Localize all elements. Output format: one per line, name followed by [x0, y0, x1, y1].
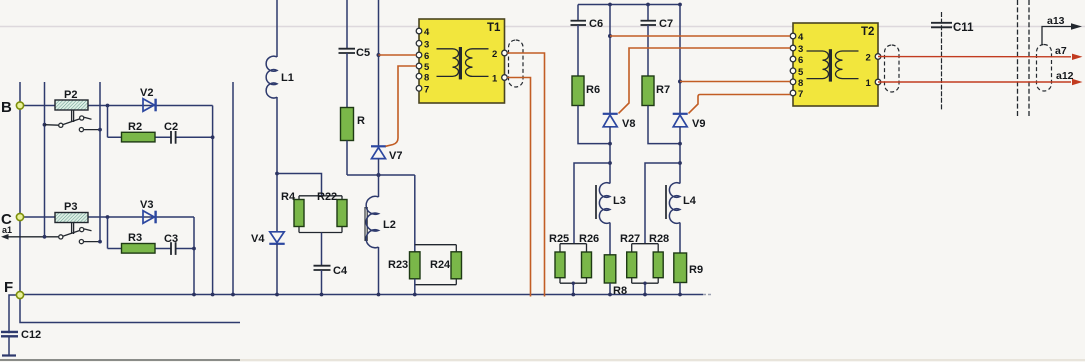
capacitor C4: [314, 265, 348, 277]
capacitor C2: [164, 121, 178, 144]
wire: vertical stub x=44.5: [44, 82, 46, 237]
wire R2 row drop: [107, 106, 109, 138]
wire: top rail y=4.5: [578, 4, 680, 6]
svg-text:R25: R25: [549, 233, 569, 245]
wire R2 row right segment: [176, 136, 213, 138]
wire: x=610 below V8: [609, 127, 611, 184]
wire: x=578 mid: [577, 25, 579, 76]
resistor R2: [122, 121, 156, 142]
wire: B row corner down to bottom bus: [212, 106, 214, 295]
wire: vertical x=680: [679, 5, 681, 114]
resistor R25: [549, 233, 569, 278]
junction dots on bottom bus (left): [192, 293, 196, 297]
svg-text:P3: P3: [64, 201, 77, 213]
scan artifact bottom edge line: [0, 359, 240, 361]
svg-text:T1: T1: [487, 22, 501, 34]
inductor L3 core: [595, 185, 597, 219]
svg-text:V9: V9: [692, 118, 705, 130]
svg-text:R7: R7: [656, 84, 670, 96]
resistor R23: [388, 252, 420, 279]
transformer T1 box: [419, 19, 505, 103]
svg-text:V8: V8: [622, 118, 635, 130]
transformer T1 windings: [437, 47, 489, 79]
inductor L4: [669, 183, 696, 224]
node C: [1, 211, 24, 228]
wire: x=610 below L3: [609, 223, 611, 255]
wire: R25 pair to bus: [572, 283, 574, 294]
wire: vertical stub x=100: [99, 82, 101, 242]
svg-text:C7: C7: [659, 18, 673, 30]
inductor L2 core: [365, 207, 367, 241]
T2 pin 1: [866, 78, 881, 89]
svg-text:3: 3: [424, 40, 429, 51]
T1 pin 5: [416, 62, 430, 73]
inductor L1: [266, 56, 294, 98]
diode V3: [140, 199, 156, 223]
diode V2: [140, 87, 156, 111]
R25/R26 rails: [560, 244, 587, 284]
wire: x=680 below V9: [679, 127, 681, 184]
node B: [1, 99, 24, 116]
svg-text:C5: C5: [356, 47, 370, 59]
capacitor C7: [641, 18, 674, 30]
svg-text:R8: R8: [613, 285, 627, 297]
svg-text:R2: R2: [128, 121, 142, 133]
svg-text:a12: a12: [1056, 70, 1074, 82]
wire: R27 branch tap: [645, 163, 680, 244]
T1 pin 8: [416, 72, 429, 83]
scan artifact light horizontal line: [0, 26, 1085, 28]
svg-text:6: 6: [798, 55, 803, 66]
switch S1 of P2: [45, 116, 102, 132]
junction x45 on switch1 wire: [43, 123, 47, 127]
orange wire V9 tap to T2 pin8: [680, 81, 790, 83]
svg-text:1: 1: [492, 74, 498, 85]
orange wire V9 cathode to T2 pin7: [689, 95, 791, 114]
inductor L2: [366, 196, 396, 247]
resistor R3: [122, 232, 156, 253]
resistor R28: [649, 233, 669, 278]
svg-text:R3: R3: [128, 232, 142, 244]
svg-text:C11: C11: [953, 22, 974, 34]
R23/R24 rails: [415, 245, 457, 285]
R4/R22 parallel network rails: [299, 196, 342, 233]
T1 output dashed stadium: [509, 40, 524, 87]
svg-text:C12: C12: [21, 329, 41, 341]
wire: C4 drop: [321, 233, 323, 266]
junction V7 line y175: [377, 173, 381, 177]
T2 pin 7: [790, 89, 803, 100]
svg-text:4: 4: [424, 27, 430, 38]
wire: R27 pair to bus: [644, 283, 646, 294]
svg-text:a13: a13: [1047, 15, 1065, 27]
T2 pin 2: [866, 53, 881, 64]
wire: vertical stub x=233: [232, 82, 234, 295]
junction top rail x648: [646, 3, 650, 7]
junction C row to R3 row: [106, 215, 110, 219]
capacitor C12: [1, 329, 41, 356]
svg-text:6: 6: [424, 51, 429, 62]
wire: F lower branch horizontal: [20, 295, 240, 323]
wire: R23 to bus: [414, 279, 416, 295]
diode V9: [673, 114, 706, 130]
svg-text:2: 2: [866, 53, 871, 64]
capacitor C11 line: [941, 12, 943, 110]
resistor R4: [281, 191, 304, 227]
T1 pin 2: [492, 49, 507, 60]
svg-text:R9: R9: [689, 264, 703, 276]
svg-text:P2: P2: [64, 89, 77, 101]
T1 pin 1: [492, 74, 507, 85]
svg-text:T2: T2: [861, 26, 874, 38]
transformer T2 box: [793, 23, 878, 106]
node a1 arrow: [1, 225, 60, 240]
orange wire T1 pin1 down: [507, 78, 530, 297]
orange wire V8 tap to T2 pin4: [610, 35, 790, 37]
T2 pin 6: [790, 55, 803, 66]
relay P3 actuator link: [72, 223, 74, 234]
wire R3 row left segment: [108, 248, 171, 250]
capacitor C6: [571, 18, 604, 30]
inductor L4 core: [665, 185, 667, 219]
wire: R9 to bus: [679, 283, 681, 295]
wire R3 row drop: [107, 217, 109, 249]
junction top rail x680: [678, 3, 682, 7]
svg-text:R22: R22: [317, 191, 337, 203]
svg-text:7: 7: [798, 89, 803, 100]
svg-text:4: 4: [798, 32, 804, 43]
orange wire V8 cathode to T2 pin3: [619, 48, 791, 113]
wire: vertical x=347 top: [346, 0, 348, 48]
junction R3 row right: [192, 247, 196, 251]
svg-text:V4: V4: [251, 233, 265, 245]
svg-text:V2: V2: [140, 87, 153, 99]
wire: vertical x=378.5 top: [378, 0, 380, 146]
svg-text:R28: R28: [649, 233, 669, 245]
svg-text:R24: R24: [430, 259, 451, 271]
T2 pin 8: [790, 78, 803, 89]
svg-text:R: R: [357, 115, 365, 127]
junction x277 y173.5: [275, 172, 279, 176]
svg-text:8: 8: [798, 78, 803, 89]
resistor R7: [642, 76, 670, 106]
svg-text:R6: R6: [586, 84, 600, 96]
T2 output dashed stadium: [885, 45, 900, 92]
orange wire T1 pin5 to V7: [386, 66, 417, 146]
svg-text:V3: V3: [140, 199, 153, 211]
wire: horizontal to R4/R22: [277, 174, 322, 196]
red wire a7: [878, 45, 1083, 60]
wire: vertical x=277 mid: [276, 97, 278, 232]
relay P2: [55, 89, 88, 110]
relay P3: [55, 201, 88, 223]
resistor R24: [430, 252, 462, 279]
dashed vertical line 2: [1028, 0, 1030, 116]
red wire a12: [878, 70, 1083, 85]
diode V7: [371, 146, 402, 162]
wire a13: [1042, 15, 1082, 45]
wire: x=648 C7 branch: [647, 5, 649, 21]
wire: x=648 mid: [647, 25, 649, 76]
resistor R8: [604, 255, 627, 297]
wire: bottom bus dashed remnant: [703, 294, 712, 296]
svg-text:C4: C4: [333, 265, 348, 277]
resistor R27: [620, 233, 640, 278]
resistor R26: [579, 233, 599, 278]
svg-text:R23: R23: [388, 259, 408, 271]
svg-text:a1: a1: [2, 225, 12, 235]
wire: C row horizontal: [20, 216, 194, 218]
switch S2 of P3: [59, 228, 102, 244]
svg-text:L2: L2: [383, 219, 396, 231]
T2 pin 5: [790, 67, 804, 78]
junction x45 on a1 wire: [43, 235, 47, 239]
T2 pin 4: [790, 32, 804, 43]
svg-text:a7: a7: [1055, 45, 1067, 57]
svg-text:L3: L3: [613, 195, 626, 207]
wire: vertical x=378.5 bottom: [378, 247, 380, 295]
wire R3 row right segment: [176, 248, 194, 250]
wire: F to C12 branch: [9, 295, 20, 355]
T1 pin 6: [416, 51, 429, 62]
wire: B-C-F vertical bus x=20: [19, 82, 21, 295]
svg-text:C6: C6: [589, 18, 603, 30]
wire: R8 to bus: [609, 283, 611, 295]
svg-text:7: 7: [424, 85, 429, 96]
svg-text:8: 8: [424, 72, 429, 83]
svg-text:3: 3: [798, 44, 803, 55]
resistor R: [341, 108, 366, 141]
svg-text:2: 2: [492, 49, 497, 60]
junction B row to R2 row: [106, 104, 110, 108]
relay P2 actuator link: [72, 111, 74, 123]
dashed vertical line 1: [1017, 0, 1019, 116]
resistor R22: [317, 191, 347, 227]
junction orange tap y55: [377, 53, 381, 57]
wire: B row horizontal: [20, 105, 213, 107]
wire: horizontal y=175: [347, 174, 415, 176]
svg-text:R27: R27: [620, 233, 640, 245]
diode V4: [251, 232, 285, 245]
capacitor C11: [931, 22, 974, 34]
svg-text:R26: R26: [579, 233, 599, 245]
orange wire T1 pin6: [379, 54, 417, 56]
junction top rail x610: [608, 3, 612, 7]
svg-text:B: B: [1, 99, 12, 116]
wire: vertical x=277 bottom: [276, 244, 278, 295]
wire: vertical x=277 top: [276, 0, 278, 57]
wire: C4 to bus: [321, 270, 323, 295]
wire: vertical x=610: [609, 5, 611, 114]
node F: [4, 279, 24, 299]
wire: x=648 bottom corner: [648, 106, 680, 144]
T1 pin 3: [416, 40, 429, 51]
wire: x=680 below L4: [679, 223, 681, 254]
svg-text:L4: L4: [683, 195, 697, 207]
svg-text:L1: L1: [281, 72, 294, 84]
svg-text:5: 5: [798, 67, 804, 78]
orange wire T1 pin2 down: [507, 53, 544, 297]
wire: C row corner down to bottom bus: [193, 217, 195, 295]
wire: vertical x=347 mid: [346, 53, 348, 108]
T2 pin 3: [790, 44, 803, 55]
wire: bottom bus F row: [20, 294, 703, 296]
R27/R28 rails: [632, 244, 659, 284]
svg-text:5: 5: [424, 62, 430, 73]
resistor R6: [572, 76, 600, 106]
junction R2 row right: [211, 135, 215, 139]
transformer T2 windings: [807, 49, 859, 81]
wire: vertical x=378.5 mid: [378, 159, 380, 197]
svg-text:V7: V7: [389, 150, 402, 162]
inductor L3: [599, 183, 625, 224]
wire: vertical x=414.8 R23 branch: [414, 175, 416, 252]
capacitor C5: [339, 47, 371, 59]
capacitor C3: [164, 233, 178, 255]
output dashed stadium right: [1037, 45, 1052, 92]
T1 pin 7: [416, 85, 429, 96]
wire: x=578 C6 branch: [577, 5, 579, 21]
T1 pin 4: [416, 27, 430, 38]
resistor R9: [674, 253, 703, 283]
wire: x=578 bottom corner: [578, 106, 610, 144]
diode V8: [603, 114, 636, 130]
wire R2 row left segment: [108, 136, 171, 138]
svg-text:F: F: [4, 279, 13, 296]
wire: vertical x=347 low: [346, 141, 348, 176]
svg-text:1: 1: [866, 78, 872, 89]
wire: R25 branch tap: [574, 163, 610, 244]
